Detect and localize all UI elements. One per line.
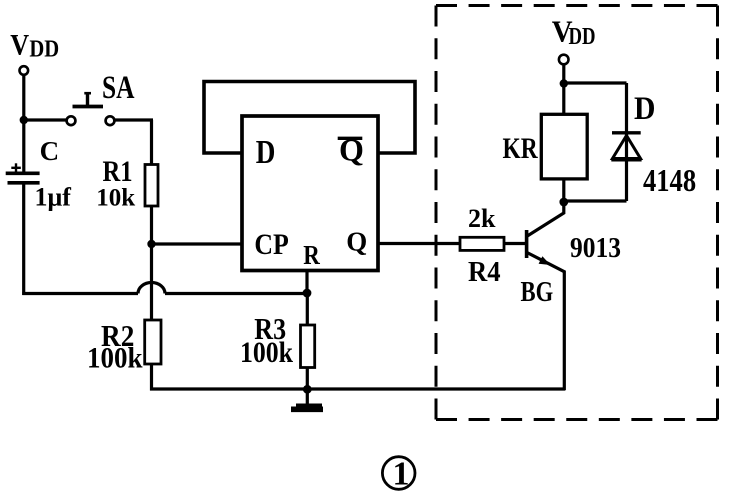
svg-text:DD: DD <box>569 23 596 50</box>
svg-text:DD: DD <box>29 35 59 62</box>
svg-text:KR: KR <box>503 131 539 164</box>
svg-text:9013: 9013 <box>570 232 621 263</box>
svg-text:C: C <box>40 136 60 166</box>
svg-text:D: D <box>256 133 276 171</box>
svg-text:R4: R4 <box>468 256 501 287</box>
svg-text:R1: R1 <box>103 155 133 188</box>
svg-text:R: R <box>303 241 320 270</box>
svg-text:1μf: 1μf <box>35 183 72 212</box>
svg-text:D: D <box>634 90 655 127</box>
svg-text:BG: BG <box>521 275 554 307</box>
svg-text:100k: 100k <box>87 342 143 375</box>
svg-text:SA: SA <box>102 70 135 106</box>
svg-text:V: V <box>10 29 29 62</box>
svg-text:1: 1 <box>393 456 410 493</box>
svg-text:Q: Q <box>346 227 367 257</box>
svg-text:CP: CP <box>254 228 288 261</box>
svg-text:100k: 100k <box>240 336 293 369</box>
svg-text:2k: 2k <box>468 204 496 233</box>
svg-text:4148: 4148 <box>643 164 696 199</box>
svg-text:10k: 10k <box>96 185 135 212</box>
